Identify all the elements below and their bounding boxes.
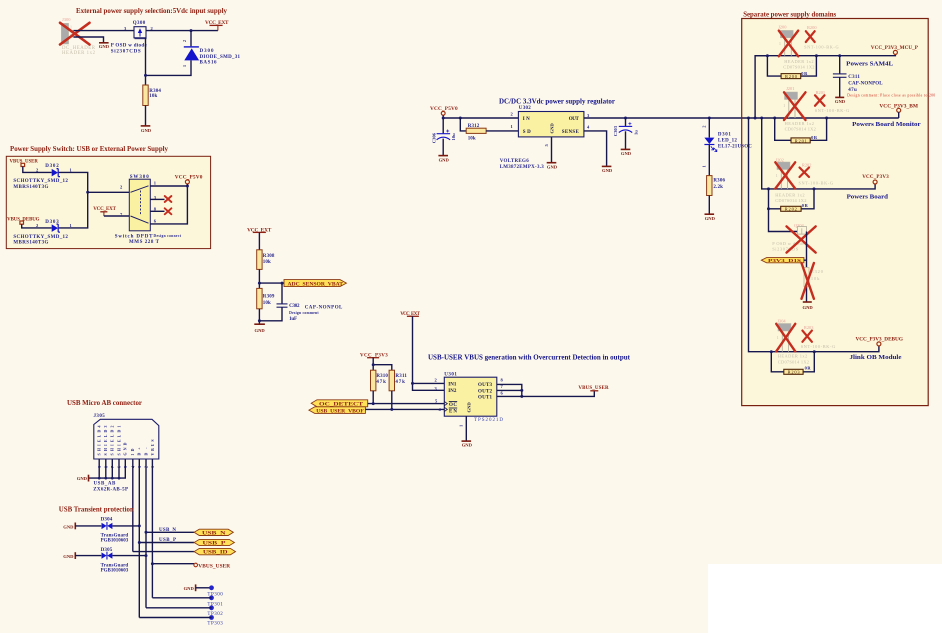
op-amp U301 (power switch) [435, 372, 504, 427]
svg-text:Switch DPDT: Switch DPDT [115, 234, 153, 239]
svg-text:CAP-NONPOL: CAP-NONPOL [305, 306, 343, 311]
wire Q300 source down [145, 38, 147, 85]
wire R312 to U302 SD [486, 130, 518, 132]
svg-text:GND: GND [99, 44, 110, 49]
wire R200 bypass [767, 56, 781, 76]
svg-text:SHIELD3: SHIELD3 [104, 425, 108, 455]
wire R203 bypass [771, 352, 784, 372]
svg-text:IN2: IN2 [448, 389, 457, 394]
svg-text:R202: R202 [785, 207, 797, 212]
svg-text:DC/DC 3.3Vdc power supply regu: DC/DC 3.3Vdc power supply regulator [499, 97, 616, 106]
ground (TP300) [184, 584, 196, 591]
svg-text:R309: R309 [263, 294, 275, 299]
wire Q300 drain to VCC_EXT [146, 30, 218, 32]
svg-text:R201: R201 [816, 90, 826, 95]
port VCC_P3V3_DEBUG [856, 338, 904, 346]
power flag VCC_EXT (switch) [93, 207, 116, 216]
wire VBUS pin down [151, 459, 153, 598]
svg-text:GND: GND [835, 99, 846, 104]
connector J305 [93, 414, 159, 492]
resistor R309 [257, 288, 275, 308]
node: R310 join [372, 402, 375, 405]
resistor R304 [143, 85, 162, 106]
ground (U301) [462, 441, 473, 447]
svg-text:OUT1: OUT1 [478, 395, 493, 400]
svg-text:R203: R203 [788, 370, 801, 375]
power flag VCC_EXT [205, 20, 229, 31]
port VCC_P5V0 [175, 174, 203, 186]
svg-text:47k: 47k [395, 380, 405, 385]
wire SW300 pin3 (no connect) [150, 198, 164, 200]
svg-text:ID: ID [131, 448, 135, 455]
resistor R310 [371, 370, 389, 391]
wire D302 cathode to common node [59, 172, 88, 192]
net flag USB_N [194, 529, 233, 536]
resistor R308 [257, 250, 275, 270]
svg-text:1: 1 [702, 165, 707, 167]
svg-text:ZX62R-AB-5P: ZX62R-AB-5P [93, 487, 128, 492]
svg-text:10k: 10k [263, 260, 271, 265]
test point TP300 [207, 585, 223, 597]
port VCC_P3V3 [862, 175, 889, 184]
connector J201 (not fitted) [783, 86, 816, 131]
svg-text:2: 2 [182, 40, 187, 42]
wire common node to SW300 pin2 [88, 191, 130, 193]
svg-text:0R: 0R [811, 135, 818, 140]
svg-text:LED_12: LED_12 [718, 138, 738, 143]
svg-text:Design comment: Design comment [289, 311, 319, 315]
test point TP302 [207, 605, 223, 617]
svg-text:47k: 47k [376, 380, 386, 385]
svg-text:EN: EN [449, 409, 457, 414]
wire SW300 pin8 (no connect) [150, 210, 164, 212]
node: J200 row joins [766, 54, 769, 57]
svg-text:U302: U302 [519, 106, 532, 111]
svg-text:SNT-100-BK-G: SNT-100-BK-G [815, 108, 850, 113]
svg-text:PGB1010603: PGB1010603 [101, 539, 129, 544]
svg-text:MBRS140T3G: MBRS140T3G [13, 185, 48, 190]
ground (D304) [63, 523, 75, 530]
capacitor C302 [277, 304, 344, 322]
svg-text:Jlink OB Module: Jlink OB Module [850, 354, 902, 361]
wire VCC_EXT to U301 IN1/IN2 [413, 316, 445, 390]
node: Q300 source / D300 / R304 [144, 74, 147, 77]
svg-text:0R: 0R [805, 366, 812, 371]
svg-text:VCC_P3V3: VCC_P3V3 [862, 175, 889, 180]
svg-text:DIODE_SMD_31: DIODE_SMD_31 [200, 55, 241, 60]
svg-text:LM3872EMPX-3.3: LM3872EMPX-3.3 [500, 165, 545, 170]
resistor R200 (0R) [781, 71, 808, 79]
svg-text:P OSD w diode: P OSD w diode [111, 44, 148, 49]
ground (J305 shield) [77, 475, 89, 482]
wire U302 SENSE to ground [584, 131, 607, 166]
svg-text:HEADER 1x2: HEADER 1x2 [775, 192, 804, 197]
svg-text:ADC_SENSOR_VBAT: ADC_SENSOR_VBAT [288, 282, 344, 287]
node: rail taps on main bus [747, 117, 750, 120]
svg-text:CD07S014 1X2: CD07S014 1X2 [785, 126, 816, 131]
wire R310 to OC row [372, 391, 374, 404]
capacitor C306 [432, 130, 457, 144]
wire flag to R320 [804, 259, 807, 261]
wire R304 to ground [145, 106, 147, 126]
svg-text:0R: 0R [801, 71, 808, 76]
svg-text:GND: GND [124, 442, 128, 455]
wire SW300 pin6 [150, 186, 187, 224]
resistor R203 alt (not fitted) [801, 325, 836, 349]
svg-text:D304: D304 [101, 517, 113, 522]
svg-text:R200: R200 [785, 74, 798, 79]
node: OUT2 join [520, 389, 523, 392]
node: J202 row joins [767, 187, 770, 190]
svg-text:USB Transient protection: USB Transient protection [59, 506, 134, 514]
svg-text:GND: GND [466, 402, 471, 413]
ground (SENSE) [602, 166, 613, 173]
no-fit cross over J201 [784, 92, 806, 120]
svg-text:R201: R201 [795, 138, 807, 143]
diode D300 [182, 40, 240, 67]
svg-text:SCHOTTKY_SMD_12: SCHOTTKY_SMD_12 [13, 235, 68, 240]
resistor R202 alt (not fitted) [799, 163, 834, 186]
svg-text:USB_ID: USB_ID [203, 551, 228, 556]
svg-text:GND: GND [63, 524, 74, 529]
port VCC_P3V3_MCU_P [871, 46, 918, 54]
no-fit cross over R203 alt [802, 331, 812, 342]
wire OC_DETECT to U301 pin5 [368, 403, 445, 405]
power domains section interior [742, 19, 929, 406]
wire D300 cathode up [190, 31, 192, 47]
node: Q304 branch [767, 207, 770, 210]
svg-text:USB-USER VBUS generation with: USB-USER VBUS generation with Overcurren… [428, 353, 630, 362]
node: C302 bottom join [258, 319, 261, 322]
svg-text:Si2307CDS: Si2307CDS [111, 49, 141, 54]
switch section interior [6, 156, 210, 248]
no-fit cross over R200 alt [806, 31, 815, 42]
diode D303 [13, 220, 72, 246]
svg-text:USB_USER_VBOF: USB_USER_VBOF [316, 409, 364, 414]
svg-text:J300: J300 [62, 17, 71, 22]
svg-text:R310: R310 [376, 374, 388, 379]
svg-text:1: 1 [777, 336, 779, 340]
net flag OC_DETECT [311, 400, 368, 408]
no-connect cross pin3 [165, 196, 172, 202]
resistor R203 (0R) [784, 366, 812, 375]
wire R306 to ground [708, 196, 710, 215]
svg-text:Power Supply Switch: USB or Ex: Power Supply Switch: USB or External Pow… [10, 144, 168, 153]
wire R311 to EN row [391, 391, 393, 410]
ground (R306) [705, 214, 716, 221]
wire shield pins to ground bus [89, 459, 100, 478]
wire OUT1 to VBUS_USER [497, 391, 595, 397]
section frame [742, 19, 929, 406]
svg-text:SD: SD [523, 130, 531, 135]
wire VBUS to VBUS_USER port [152, 563, 194, 565]
wire C303 top [625, 118, 627, 126]
no-fit cross over J300 [60, 23, 90, 45]
wire R309 to ground [258, 309, 260, 324]
TVS D304 [101, 517, 129, 543]
wire VBUS_USER to D302 anode [23, 167, 52, 173]
wire D304 to D+ line [112, 525, 139, 527]
svg-text:Q300: Q300 [133, 21, 146, 26]
svg-text:EL17-21USOC: EL17-21USOC [718, 145, 752, 150]
wire OUT2 [497, 389, 522, 391]
svg-text:J200: J200 [778, 25, 787, 30]
wire D- pin down [145, 459, 147, 608]
wire C303 to ground [625, 131, 627, 149]
svg-text:Q304: Q304 [794, 223, 805, 228]
ground (divider) [254, 324, 265, 333]
svg-text:USB_N: USB_N [202, 531, 226, 536]
resistor R202 (0R) [781, 203, 809, 212]
svg-text:USB_AB: USB_AB [94, 481, 116, 486]
port VBUS_USER (connector side) [194, 563, 230, 569]
svg-text:GND: GND [439, 157, 450, 162]
wire VCC_P5V0 to U302 IN [443, 115, 518, 118]
capacitor C311 [833, 74, 936, 98]
wire J300 pin1 to Q300 gate [74, 30, 135, 32]
svg-text:GND: GND [549, 123, 554, 134]
svg-text:R202: R202 [802, 163, 812, 168]
ground (U302 pin5) [547, 163, 558, 170]
wire C302 branch [281, 283, 283, 304]
net flag USB_P [194, 539, 234, 546]
svg-text:GND: GND [803, 305, 814, 310]
wire VBUS_DEBUG to D303 anode [22, 224, 52, 228]
node: VBUS_USER tap [151, 562, 154, 565]
wire VCC_EXT to R308 [258, 232, 260, 249]
svg-text:SCHOTTKY_SMD_12: SCHOTTKY_SMD_12 [13, 179, 68, 184]
svg-text:2: 2 [702, 126, 707, 128]
svg-text:10u: 10u [451, 133, 456, 141]
node: pullup split [372, 363, 375, 366]
wire ID pin down [132, 459, 134, 552]
wire Q304 to P3V3_D1S row and R320 [806, 232, 808, 268]
switch SW300 [115, 175, 182, 245]
svg-text:VBUS_USER: VBUS_USER [198, 564, 230, 570]
svg-text:2.2k: 2.2k [713, 185, 723, 190]
svg-text:OUT2: OUT2 [478, 389, 493, 394]
node: C303 tap [624, 117, 627, 120]
svg-text:Separate power supply domains: Separate power supply domains [743, 11, 836, 19]
wire rail to J200 row [755, 56, 767, 118]
node: divider [258, 282, 261, 285]
svg-text:GND: GND [621, 151, 632, 156]
svg-text:Design connect: Design connect [154, 234, 182, 238]
section frame [6, 156, 210, 248]
ground (C311) [835, 97, 846, 104]
node: C306 tap [442, 117, 445, 120]
test point TP303 [207, 615, 223, 627]
wire C311 branch [839, 56, 841, 74]
node: J304 row joins [770, 350, 773, 353]
connector J202 (not fitted) [775, 158, 806, 204]
TVS D305 [101, 548, 129, 574]
svg-text:1uF: 1uF [289, 317, 297, 322]
capacitor C303 [613, 122, 639, 136]
svg-text:GND: GND [184, 586, 195, 591]
wire C306 top [442, 118, 444, 133]
no-fit cross over R202 alt [800, 168, 810, 178]
wire D301 anode to R306 [708, 145, 710, 176]
svg-text:U301: U301 [444, 372, 457, 377]
svg-text:C302: C302 [289, 304, 300, 309]
wire VBOF to U301 pin4 [365, 408, 444, 410]
wire rail to J202 row [762, 118, 875, 189]
node: diode common [86, 191, 89, 194]
svg-text:CAP-NONPOL: CAP-NONPOL [848, 81, 883, 86]
net flag USB_ID [194, 548, 235, 555]
svg-text:C311: C311 [848, 75, 860, 80]
svg-text:1: 1 [458, 425, 463, 427]
node: C302 tap [281, 282, 284, 285]
svg-text:1: 1 [783, 104, 785, 108]
svg-text:GND: GND [705, 216, 716, 221]
svg-text:GND: GND [255, 328, 266, 333]
wire D301 cathode [708, 118, 710, 138]
transistor Q300 [111, 21, 154, 54]
wire VCC_P3V3 to R310/R311 [372, 358, 374, 371]
resistor R201 (0R) [791, 135, 818, 143]
connector J300 (DC header, not fitted) [61, 17, 95, 56]
node: R311 join [390, 408, 393, 411]
svg-text:External power supply selectio: External power supply selection:5Vdc inp… [76, 6, 227, 15]
svg-text:R311: R311 [395, 374, 407, 379]
svg-text:GND: GND [462, 442, 473, 447]
transistor Q304 (not fitted) [772, 223, 806, 251]
resistor R320 (not fitted) [804, 268, 824, 287]
no-fit cross over J304 [776, 324, 795, 352]
svg-text:VCC_P5V0: VCC_P5V0 [175, 174, 203, 180]
svg-text:USB_P: USB_P [159, 538, 176, 543]
svg-text:10k: 10k [468, 137, 476, 142]
wire C311 to ground [839, 77, 841, 97]
svg-text:OUT: OUT [569, 117, 580, 122]
off-sheet white area [708, 564, 942, 633]
svg-text:C303: C303 [613, 125, 618, 136]
wire C306 to ground [442, 139, 444, 156]
svg-text:10k: 10k [811, 276, 820, 281]
power flag VCC_EXT (U301) [400, 312, 420, 317]
wire USB_ID from ID [133, 551, 194, 553]
resistor R312 [466, 124, 486, 142]
no-fit cross over R320 [802, 263, 814, 299]
svg-text:CD07S014 1X2: CD07S014 1X2 [783, 64, 814, 69]
svg-text:P3V3_D1S: P3V3_D1S [768, 258, 802, 263]
test point TP301 [207, 595, 223, 607]
node: USB_N tap [145, 531, 148, 534]
svg-text:0R: 0R [802, 203, 809, 208]
wire C302 to ground join [259, 307, 282, 321]
svg-text:GND: GND [141, 128, 152, 133]
ground (C306) [438, 156, 449, 163]
no-fit cross over Q304 [787, 226, 816, 252]
power flag VBUS_USER (output) [578, 386, 609, 391]
svg-text:Powers Board Monitor: Powers Board Monitor [852, 121, 920, 128]
resistor R311 [389, 370, 407, 391]
wire U301 GND pin1 to ground [465, 416, 467, 441]
power flag VCC_P3V3 (pullups) [360, 353, 388, 358]
no-fit cross over J202 [775, 162, 795, 188]
svg-text:IN1: IN1 [448, 382, 457, 387]
wire rail to J304 row [749, 118, 879, 352]
ground (C303) [621, 149, 632, 156]
wire D- to TP302 [146, 607, 212, 609]
svg-text:1: 1 [182, 65, 187, 67]
power flag VCC_EXT (divider) [247, 228, 272, 234]
svg-text:TP303: TP303 [207, 622, 223, 627]
ground (R304) [141, 126, 152, 133]
svg-text:Si2307CDS: Si2307CDS [772, 247, 799, 252]
svg-text:IN: IN [523, 117, 530, 122]
svg-text:10k: 10k [149, 94, 157, 99]
net flag P3V3_D1S [761, 258, 804, 263]
port VCC_P5V0 (regulator input) [430, 106, 458, 115]
svg-text:VOLTREG6: VOLTREG6 [500, 159, 530, 164]
node: R312 tap [459, 117, 462, 120]
svg-text:47u: 47u [848, 88, 857, 93]
wire GND to D304 [75, 525, 101, 527]
svg-text:1u: 1u [633, 130, 638, 135]
node: D305 on D- [145, 554, 148, 557]
svg-text:TPS2021D: TPS2021D [474, 418, 503, 423]
svg-text:SNT-100-BK-G: SNT-100-BK-G [799, 181, 834, 186]
svg-text:R306: R306 [713, 179, 725, 184]
wire R308 to divider node [258, 269, 260, 288]
svg-text:D301: D301 [718, 132, 732, 137]
svg-text:SHIELD1: SHIELD1 [117, 425, 121, 455]
wire VCC_EXT to SW300 pin7 [104, 215, 129, 217]
port VCC_P3V3_BM [879, 104, 918, 118]
svg-text:SENSE: SENSE [562, 130, 580, 135]
net flag USB_USER_VBOF [309, 407, 366, 415]
node: OUT1 join [520, 395, 523, 398]
wire OUT3 [497, 384, 522, 396]
svg-text:C306: C306 [432, 132, 437, 143]
svg-text:MMS 228 T: MMS 228 T [129, 240, 160, 245]
wire GND to D305 [75, 555, 101, 557]
svg-text:R200: R200 [807, 25, 817, 30]
svg-text:J304: J304 [777, 319, 786, 324]
wire divider to flag [259, 282, 284, 284]
svg-text:GND: GND [77, 476, 88, 481]
svg-text:10k: 10k [263, 301, 271, 306]
no-fit cross over J200 [779, 31, 798, 57]
wire D+ pin down [138, 459, 140, 618]
port VBUS_DEBUG [7, 218, 40, 225]
wire to R312 [460, 118, 466, 131]
wire U302 OUT bus to right box [584, 117, 899, 119]
wire to Q304 [769, 209, 798, 232]
no-connect cross pin8 [165, 208, 172, 214]
node: Q300 drain / D300 junction [190, 29, 193, 32]
wire U302 GND pin to ground [551, 137, 553, 163]
wire R202 bypass [769, 189, 781, 209]
svg-text:HEADER 1x2: HEADER 1x2 [785, 121, 814, 126]
svg-text:Design comment: Place close as: Design comment: Place close as possible … [847, 94, 935, 98]
svg-text:SHIELD2: SHIELD2 [111, 425, 115, 455]
svg-text:HEADER 1x2: HEADER 1x2 [62, 51, 96, 56]
svg-text:D300: D300 [200, 49, 215, 54]
resistor R200 alt (not fitted) [804, 25, 839, 50]
no-fit cross over R201 alt [815, 95, 825, 106]
svg-text:MBRS140T3G: MBRS140T3G [13, 241, 48, 246]
svg-text:J201: J201 [786, 86, 794, 91]
resistor R201 alt (not fitted) [815, 90, 850, 113]
resistor R306 [707, 176, 726, 196]
LED D301 [702, 126, 753, 168]
svg-text:SNT-100-BK-G: SNT-100-BK-G [804, 45, 839, 50]
svg-text:R308: R308 [263, 254, 275, 259]
